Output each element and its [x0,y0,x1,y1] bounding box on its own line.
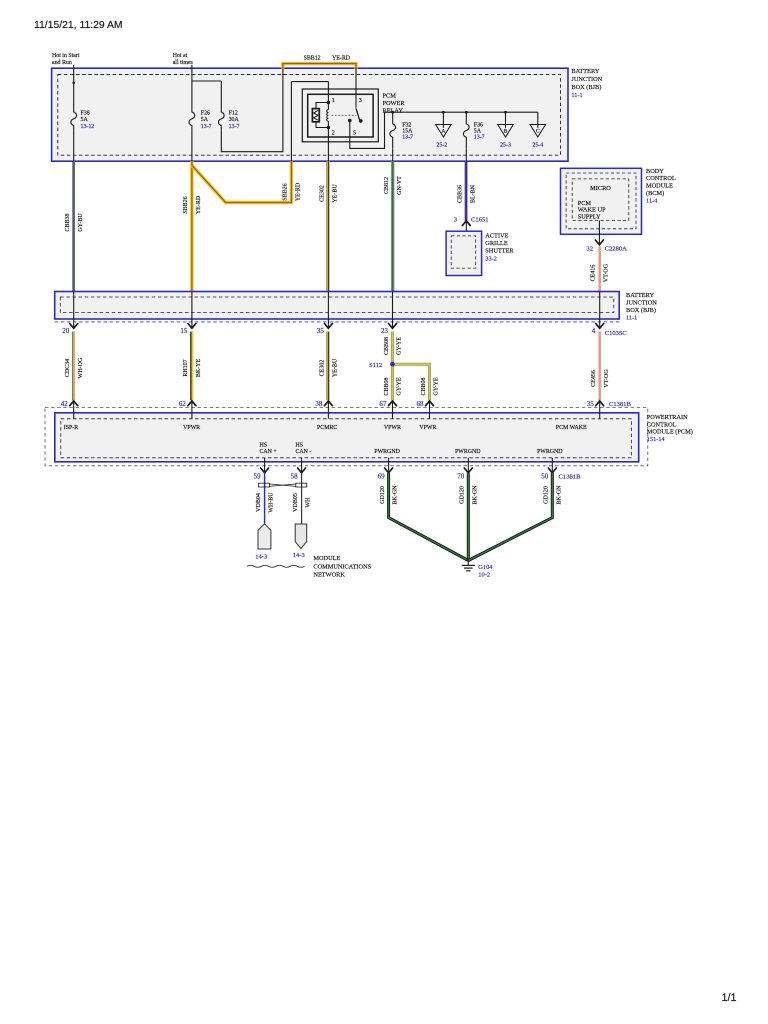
wire through band at pin 4 [599,292,601,329]
svg-text:32: 32 [586,246,593,253]
wire: F38 output inside box [73,130,75,161]
ACTIVE GRILLE SHUTTER box [446,231,482,275]
wire through band at pin 15 [191,292,193,329]
svg-text:GY-YE: GY-YE [397,337,403,355]
band pin 23 arrow [389,324,397,329]
junction pin1/resistor top [327,101,330,104]
wire: relay pin 1 (coil top) [327,82,329,103]
PCM pin 68 stub (VPWR) [429,401,431,419]
band pin 15 arrow [188,324,196,329]
stub to triangle C [537,112,539,128]
svg-text:HS: HS [260,442,268,448]
stub to triangle B [505,112,507,128]
svg-text:13-7: 13-7 [402,134,413,140]
triangle connector A 25-2 [436,125,452,138]
wire VDB05 WH [301,473,303,524]
wire CBB36 BL-BN [465,161,467,221]
ground G104 [467,561,469,566]
fuse F36 5A [463,112,469,149]
PCM pin 42 stub (ISP-R) [73,401,75,419]
svg-text:5A: 5A [201,117,209,123]
svg-text:14-3: 14-3 [293,552,305,559]
BCM outer dashed [566,173,636,229]
svg-text:13-7: 13-7 [474,134,485,140]
svg-text:POWERTRAIN: POWERTRAIN [647,414,688,421]
svg-text:PWRGND: PWRGND [374,449,400,455]
svg-text:C1381B: C1381B [559,473,582,480]
svg-text:C1035C: C1035C [605,330,628,337]
svg-text:BOX (BJB): BOX (BJB) [571,84,601,91]
svg-text:2: 2 [332,131,335,137]
svg-text:C2280A: C2280A [605,246,628,253]
svg-text:151-14: 151-14 [647,436,666,443]
svg-text:GD120: GD120 [544,486,550,504]
fuse F12 30A [218,108,224,131]
svg-text:GRILLE: GRILLE [485,240,508,247]
svg-text:WH-BU: WH-BU [269,492,275,513]
svg-text:BK-YE: BK-YE [196,359,202,378]
wire GD120 BK-GN pin 50 [468,473,552,561]
svg-text:CBB08: CBB08 [421,377,427,395]
junction dot on F38 feed [72,82,75,85]
svg-text:GY-BU: GY-BU [78,213,84,232]
svg-text:VDB05: VDB05 [293,493,299,512]
svg-text:YE-RD: YE-RD [332,56,351,62]
wire through band at pin 35 [327,292,329,329]
wire: relay pin 3 riser [355,68,357,108]
triangle connector C 25-4 [530,125,546,138]
svg-text:SHUTTER: SHUTTER [485,248,514,255]
svg-text:YE-BU: YE-BU [333,358,339,377]
svg-text:MODULE: MODULE [313,555,340,562]
svg-text:HS: HS [296,442,304,448]
svg-text:PCMRC: PCMRC [317,425,337,431]
svg-text:10-2: 10-2 [478,572,490,579]
relay coil [327,103,329,110]
svg-text:PCM WAKE: PCM WAKE [556,425,587,431]
switch arm tip [359,119,363,123]
wire CE302 YE-BU lower [327,332,330,401]
relay parallel resistor [312,109,319,122]
svg-text:Hot at: Hot at [173,53,188,59]
svg-text:A: A [441,128,445,134]
wire: SBB26 riser inside box [290,82,292,162]
relay: PCM POWER RELAY outer box [302,89,378,142]
svg-text:35: 35 [587,400,595,408]
PCM pin 62 stub (VPWR) [191,401,193,419]
svg-text:ACTIVE: ACTIVE [485,232,508,239]
svg-text:GN-VT: GN-VT [397,176,403,195]
wire SBB12 YE-RD over box top [283,64,356,69]
off-page connector 14-3 (CAN+) [258,524,271,549]
svg-text:14-3: 14-3 [255,554,267,561]
wire: F12 output to SBB12 riser [221,68,283,152]
svg-text:68: 68 [417,400,425,408]
stub to triangle A [442,112,444,128]
BJB inner dashed outline [58,75,561,156]
svg-text:38: 38 [315,400,323,408]
svg-text:CAN -: CAN - [296,449,312,455]
wire into grille shutter box [465,221,467,236]
wire CBB08 GY-YE upper [391,332,394,365]
svg-text:CE456: CE456 [591,370,597,387]
svg-text:CBB36: CBB36 [458,185,464,203]
svg-text:CBB08: CBB08 [384,377,390,395]
svg-text:5: 5 [353,131,356,137]
svg-text:YE-RD: YE-RD [196,195,202,214]
band pin 20 arrow [70,324,78,329]
relay inner box [308,94,373,137]
band lower connector dashed line [55,321,620,323]
PCM bottom pin 70 stub [467,458,469,473]
svg-text:20: 20 [62,327,70,335]
svg-text:VT-OG: VT-OG [604,369,610,388]
svg-text:11-1: 11-1 [626,315,637,322]
junction bus/triangle B [504,111,507,114]
svg-text:SBB26: SBB26 [283,183,289,200]
svg-text:30A: 30A [229,117,240,123]
relay pin 5 contact [348,119,352,123]
svg-text:11/15/21, 11:29 AM: 11/15/21, 11:29 AM [34,20,123,31]
connector arrow C2280A [595,240,603,245]
PCM bottom pin 69 stub [388,458,390,473]
svg-text:YE-RD: YE-RD [296,182,302,201]
BCM inner dashed [572,179,629,221]
svg-text:SBB26: SBB26 [183,196,189,213]
wire CBB08 GY-YE branch to pin 68 [395,364,430,400]
svg-text:13-7: 13-7 [229,124,240,130]
svg-text:1/1: 1/1 [722,992,737,1004]
svg-text:42: 42 [61,400,69,408]
svg-text:CBB38: CBB38 [65,213,71,231]
svg-text:GY-YE: GY-YE [434,377,440,395]
wire: BCM output [598,221,600,245]
svg-text:CDC34: CDC34 [65,359,71,377]
PCM bottom pin 58 stub [301,458,303,473]
wire CBB38 GY-BU [72,161,74,291]
svg-text:(BCM): (BCM) [646,190,664,197]
wire: branch to F12 [192,80,221,82]
wire CDC34 WH-OG [72,332,74,401]
svg-text:BATTERY: BATTERY [626,292,654,299]
PCM pin 67 stub (VPWR) [392,401,394,419]
wire CE416 VT-OG [599,246,601,291]
svg-text:G104: G104 [478,564,493,571]
svg-text:59: 59 [254,472,262,480]
svg-text:SUPPLY: SUPPLY [578,213,601,220]
wire: Hot at all times feed to F26 [191,65,193,108]
band pin 35 arrow [324,324,332,329]
wire SBB26 YE-RD jog to relay riser [192,161,292,202]
junction bus/F36 [465,111,468,114]
svg-text:VDB04: VDB04 [256,493,262,512]
wire GD120 BK-GN pin 70 [467,473,470,561]
wire GD120 BK-GN pin 69 [389,473,469,561]
svg-text:BK-GN: BK-GN [556,485,562,505]
svg-text:VPWR: VPWR [183,425,200,431]
battery junction box BJB (band) [55,292,620,320]
svg-text:GD120: GD120 [460,486,466,504]
svg-text:50: 50 [541,472,549,480]
svg-text:25-4: 25-4 [532,142,543,148]
wire: pin 5 to fuse bus [350,112,538,148]
svg-text:VPWR: VPWR [419,425,436,431]
svg-text:WH: WH [306,497,312,508]
squiggle under module communications network [247,565,305,567]
svg-text:BATTERY: BATTERY [571,68,599,75]
svg-text:CBB08: CBB08 [384,337,390,355]
wire CE456 VT-OG [599,332,601,401]
svg-text:BL-BN: BL-BN [470,184,476,203]
svg-text:MODULE: MODULE [646,183,673,190]
PCM outer dashed rect [45,408,648,466]
svg-text:BODY: BODY [646,168,664,175]
PCM bottom pin 59 stub [264,458,266,473]
svg-text:and Run: and Run [52,60,72,66]
svg-text:MICRO: MICRO [590,185,611,192]
band inner dashed [60,297,614,313]
twisted pair symbol [259,483,270,487]
wire RH107 BK-YE [190,332,192,401]
svg-text:JUNCTION: JUNCTION [571,76,602,83]
svg-text:BOX (BJB): BOX (BJB) [626,307,656,314]
svg-text:11-4: 11-4 [646,197,658,204]
svg-text:CE302: CE302 [320,360,326,377]
relay switch arm [356,108,362,121]
wire: F26 output inside box [191,130,193,161]
svg-text:S112: S112 [369,362,382,369]
svg-text:CONTROL: CONTROL [647,421,677,428]
svg-text:5A: 5A [81,117,89,123]
battery junction box BJB (top) [52,68,568,161]
triangle connector B 25-3 [498,125,514,138]
svg-text:Hot in Start: Hot in Start [52,53,80,59]
svg-text:C: C [536,128,540,134]
relay actuation dashed line [332,114,357,116]
svg-text:69: 69 [378,472,386,480]
svg-text:1: 1 [332,98,335,104]
splice S112 [390,362,395,367]
svg-text:11-1: 11-1 [571,92,582,99]
svg-text:BK-GN: BK-GN [393,485,399,505]
svg-text:all times: all times [173,60,194,66]
off-page connector 14-3 (CAN-) [295,524,307,549]
wire SBB26 YE-RD F26 down to band [190,161,193,291]
svg-text:PWRGND: PWRGND [455,449,481,455]
svg-text:JUNCTION: JUNCTION [626,299,657,306]
PCM pin 38 stub (PCMRC) [327,401,329,419]
svg-text:C1381B: C1381B [609,401,632,408]
connector arrow C1651 [462,221,470,226]
svg-text:NETWORK: NETWORK [313,572,345,579]
svg-text:F38: F38 [81,111,90,117]
svg-text:YE-BU: YE-BU [333,184,339,203]
wire CBB08 GY-YE to pin 67 [391,367,394,401]
svg-text:3: 3 [454,216,458,223]
svg-text:25-3: 25-3 [500,142,511,148]
junction pin2/resistor bottom [327,126,330,129]
svg-text:33-2: 33-2 [485,255,497,262]
svg-text:POWER: POWER [383,100,406,107]
wire through band at pin 23 [392,292,394,329]
svg-text:GY-YE: GY-YE [397,377,403,395]
svg-text:VT-OG: VT-OG [604,263,610,282]
svg-text:WH-OG: WH-OG [78,357,84,378]
BODY CONTROL MODULE (BCM) box [561,168,642,234]
svg-text:GD120: GD120 [380,486,386,504]
svg-text:3: 3 [359,98,362,104]
PCM pin 35 stub (PCM WAKE) [599,401,601,419]
resistor top connection [316,103,328,109]
svg-text:CB812: CB812 [384,177,390,194]
junction bus/triangle A [442,111,445,114]
svg-text:13-12: 13-12 [81,124,95,130]
svg-text:23: 23 [381,327,389,335]
wire VDB04 WH-BU [264,473,266,524]
PCM bottom pin 50 stub [551,458,553,473]
svg-text:13-7: 13-7 [201,124,212,130]
svg-text:PCM: PCM [383,93,397,100]
svg-text:35: 35 [317,327,325,335]
svg-text:PWRGND: PWRGND [537,449,563,455]
wire: Hot in Start feed to F38 [73,65,75,108]
wire CB812 GN-VT [391,161,394,291]
wire through band at pin 20 [73,292,75,329]
svg-text:MODULE (PCM): MODULE (PCM) [647,429,693,436]
svg-text:BK-GN: BK-GN [472,485,478,505]
band pin 4 arrow [596,324,604,329]
fuse F26 5A [189,108,195,131]
svg-text:67: 67 [380,400,388,408]
svg-text:CONTROL: CONTROL [646,175,676,182]
svg-text:CE416: CE416 [591,265,597,282]
svg-text:CAN +: CAN + [260,449,278,455]
svg-text:ISP-R: ISP-R [64,425,78,431]
svg-text:58: 58 [291,472,299,480]
svg-text:COMMUNICATIONS: COMMUNICATIONS [313,563,371,570]
PCM inner dashed [61,419,632,458]
resistor bottom connection [316,122,328,127]
svg-text:4: 4 [592,327,596,335]
svg-text:VPWR: VPWR [384,425,401,431]
svg-text:RH107: RH107 [183,359,189,376]
wire: relay pin 2 down inside box [327,128,329,162]
fuse F32 15A [390,112,396,149]
svg-text:F12: F12 [229,111,238,117]
svg-text:15: 15 [180,327,188,335]
svg-text:CE302: CE302 [320,185,326,202]
wire: SBB26 to pin 1 horizontal [291,81,328,83]
junction bus/F32 [391,111,394,114]
fuse F38 5A [71,108,77,131]
wire CE302 YE-BU upper [327,161,330,291]
svg-text:B: B [504,128,508,134]
svg-text:25-2: 25-2 [436,142,447,148]
svg-text:F26: F26 [201,111,210,117]
svg-text:SBB12: SBB12 [304,56,321,62]
svg-text:62: 62 [179,400,187,408]
svg-text:70: 70 [457,472,465,480]
svg-text:C1651: C1651 [471,216,489,223]
